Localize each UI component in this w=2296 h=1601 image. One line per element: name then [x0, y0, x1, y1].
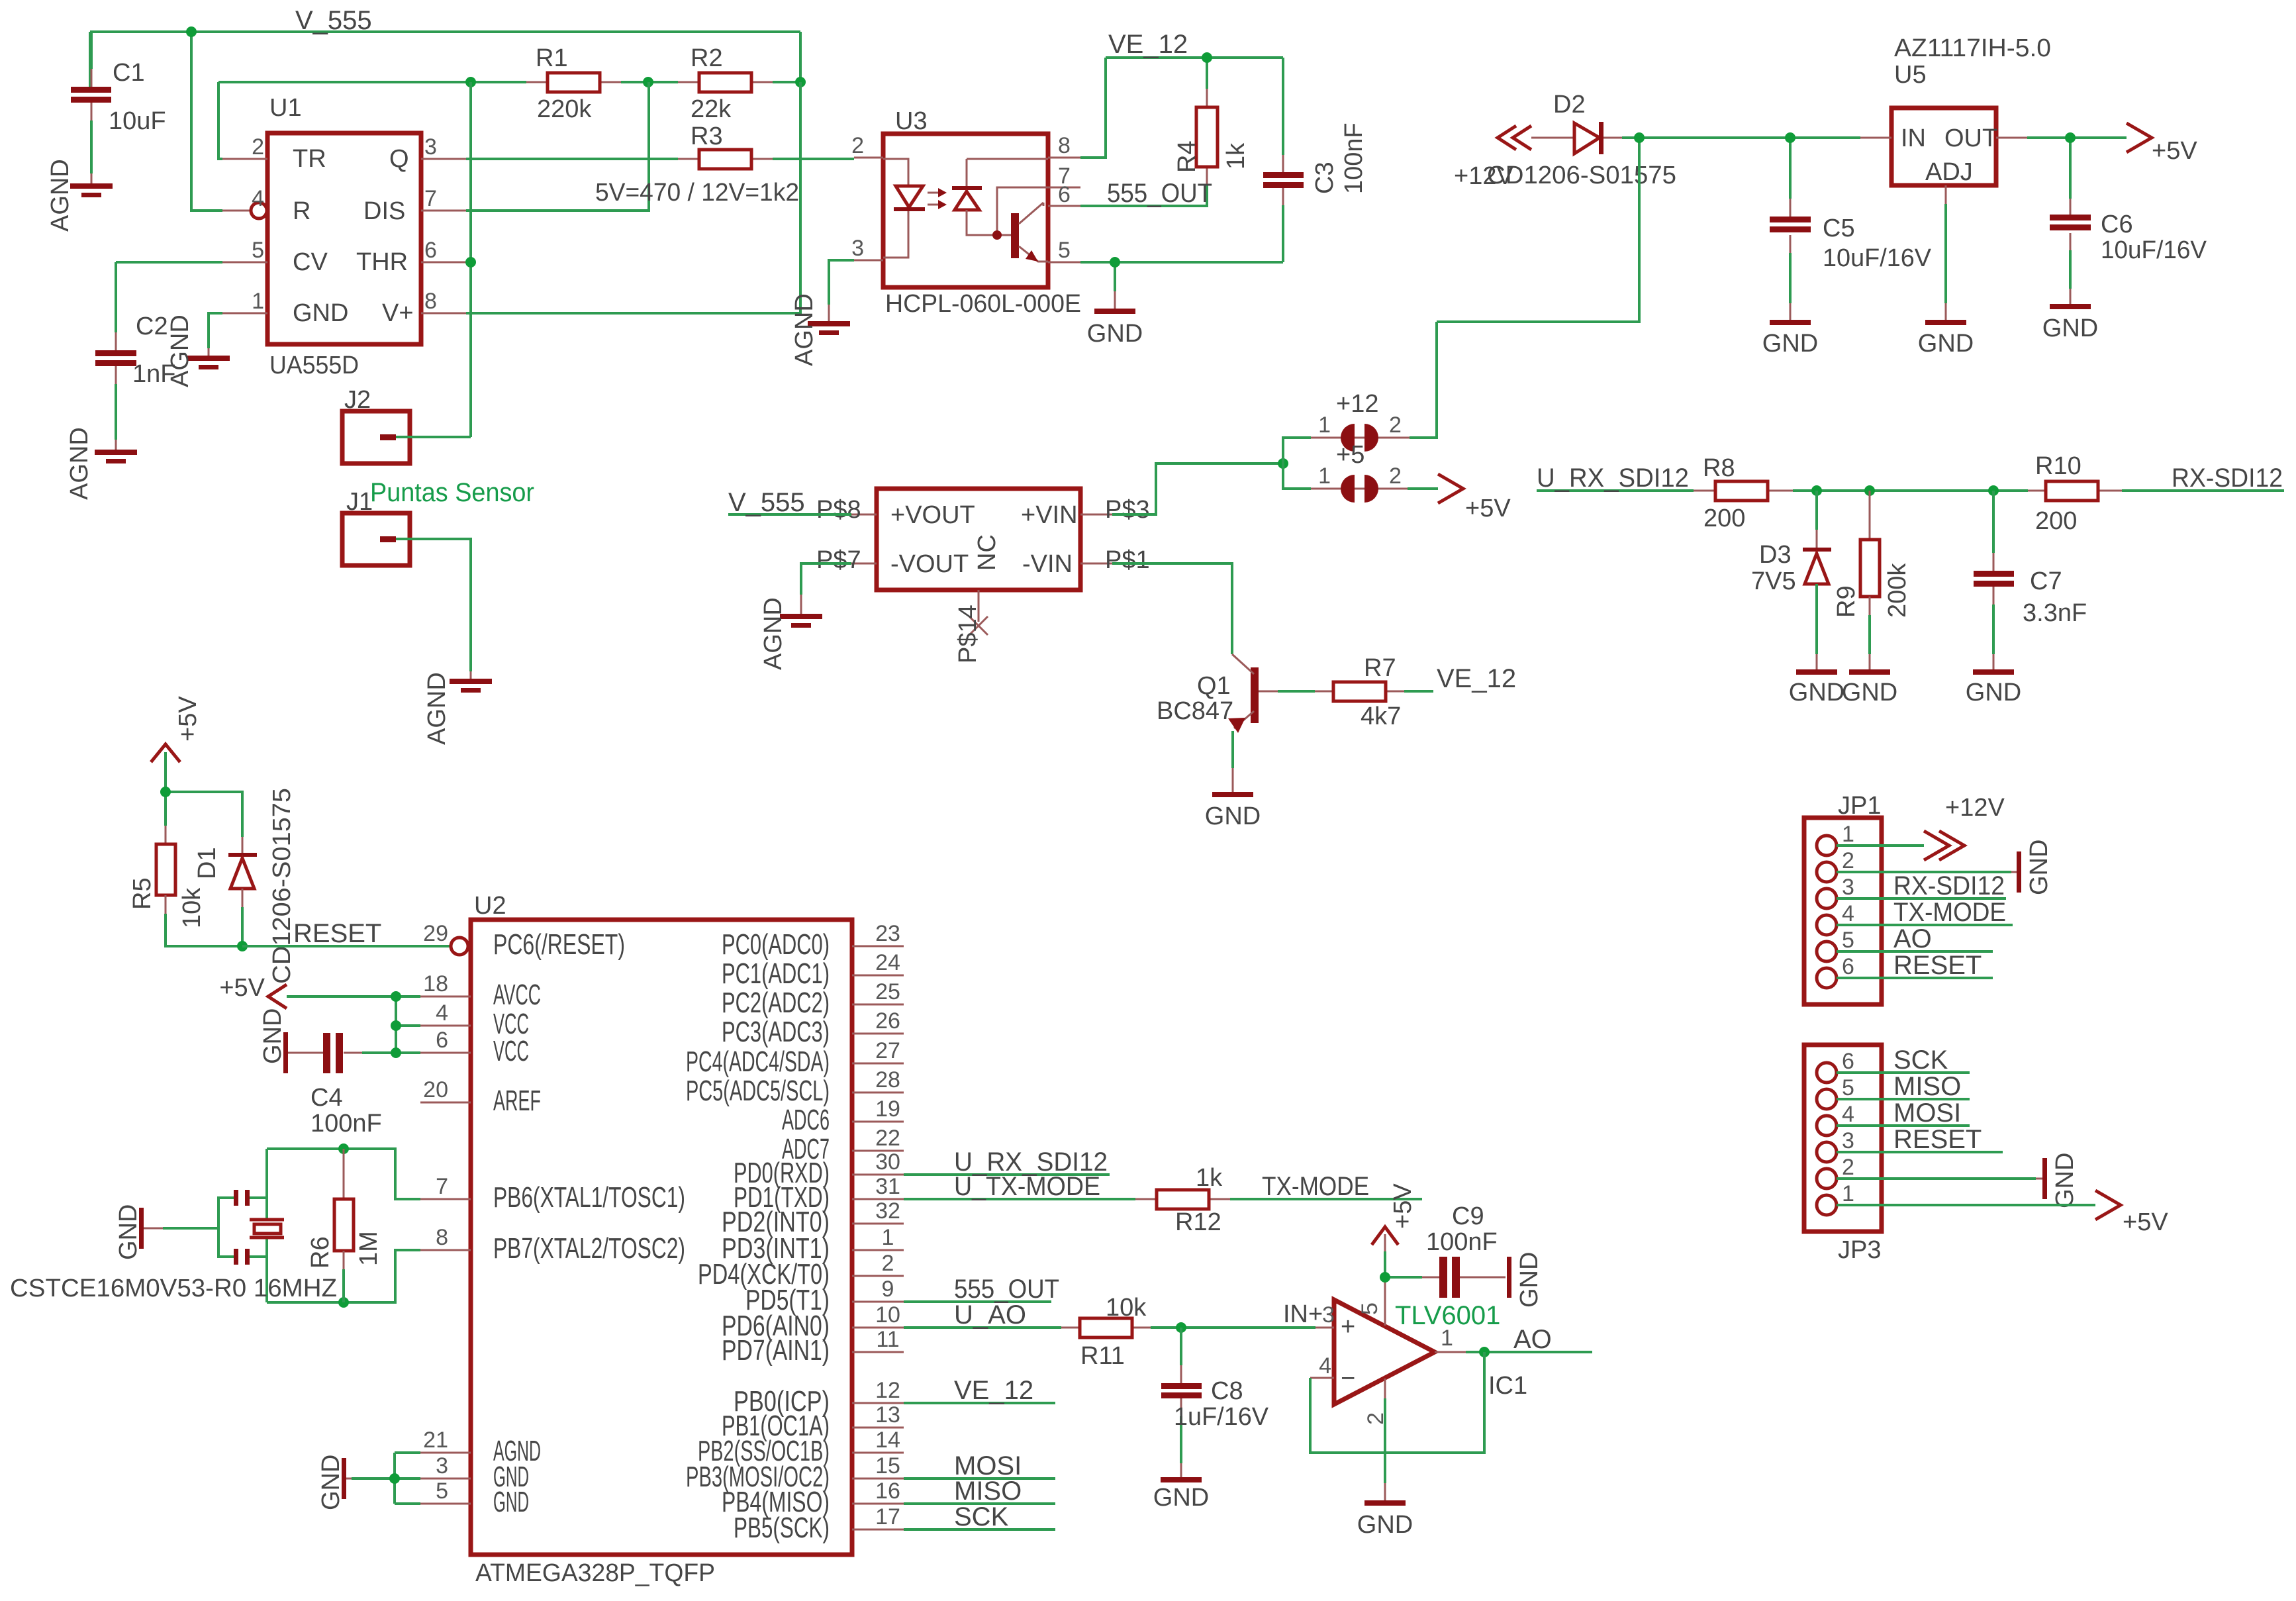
- svg-text:MOSI: MOSI: [1893, 1098, 1961, 1128]
- svg-text:1uF/16V: 1uF/16V: [1174, 1403, 1269, 1431]
- connector J2: [342, 386, 410, 463]
- U3 internal phototransistor: [992, 187, 1048, 262]
- svg-text:6: 6: [436, 1028, 448, 1053]
- ground AGND (U1 pin1): [166, 315, 230, 387]
- capacitor C3 100nF: [1263, 122, 1368, 205]
- wire net V_555 top rail: [90, 32, 800, 211]
- wire +5V to R5/D1: [166, 752, 242, 837]
- svg-text:+5: +5: [1336, 441, 1364, 469]
- svg-text:3: 3: [1842, 875, 1854, 900]
- capacitor C8 1uF/16V: [1161, 1328, 1269, 1478]
- junction R9 tap: [1864, 485, 1875, 496]
- svg-text:3: 3: [424, 134, 437, 160]
- mcu U2 ATMEGA328P_TQFP box: [471, 892, 852, 1587]
- diode D3 7V5 zener: [1751, 491, 1831, 670]
- wire opamp V- pin2 to GND: [1384, 1398, 1386, 1483]
- power +12V arrow (JP1): [1924, 794, 2005, 860]
- svg-text:10k: 10k: [1106, 1294, 1147, 1322]
- svg-text:1: 1: [882, 1225, 894, 1250]
- wire fuse branches: [1283, 438, 1437, 489]
- junction R6 top: [338, 1143, 349, 1154]
- svg-text:PC2(ADC2): PC2(ADC2): [722, 987, 830, 1019]
- svg-text:2: 2: [1842, 1155, 1854, 1180]
- svg-text:3: 3: [436, 1453, 448, 1479]
- svg-text:AVCC: AVCC: [493, 979, 541, 1011]
- svg-text:26: 26: [875, 1008, 900, 1034]
- wire JP3 pin3 RESET: [1837, 1151, 2003, 1153]
- wire -VIN to Q1 collector: [1112, 563, 1232, 654]
- wire THR vertical to J2: [469, 82, 472, 437]
- svg-text:4: 4: [252, 186, 264, 211]
- svg-text:GND: GND: [259, 1008, 287, 1064]
- svg-text:+5V: +5V: [1465, 495, 1511, 522]
- U1 pin stubs: [222, 159, 466, 313]
- svg-text:RESET: RESET: [1893, 951, 1982, 980]
- svg-text:+VIN: +VIN: [1021, 501, 1078, 529]
- wire MISO (U2 pin16): [904, 1502, 1055, 1505]
- svg-text:1: 1: [1842, 822, 1854, 847]
- svg-text:3: 3: [1842, 1128, 1854, 1153]
- svg-text:CD1206-S01575: CD1206-S01575: [1487, 162, 1676, 189]
- svg-text:P$3: P$3: [1105, 496, 1150, 524]
- wire U_TX-MODE (U2 pin31): [904, 1198, 1135, 1200]
- junction V_555 at R pin branch: [186, 26, 197, 37]
- svg-text:PD7(AIN1): PD7(AIN1): [722, 1334, 830, 1367]
- svg-text:2: 2: [252, 134, 264, 160]
- opamp pin stubs: [1310, 1279, 1466, 1398]
- svg-text:C9: C9: [1452, 1202, 1484, 1230]
- svg-text:15: 15: [875, 1453, 900, 1479]
- svg-text:CV: CV: [293, 248, 328, 276]
- svg-text:1k: 1k: [1196, 1164, 1223, 1192]
- svg-text:TX-MODE: TX-MODE: [1262, 1172, 1369, 1201]
- resistor R5 10k vertical: [128, 826, 242, 946]
- svg-text:1k: 1k: [1222, 142, 1250, 170]
- svg-text:+12V: +12V: [1945, 794, 2005, 822]
- svg-text:R7: R7: [1364, 654, 1396, 682]
- svg-text:R8: R8: [1703, 454, 1735, 482]
- wire U5 ADJ to GND: [1944, 204, 1947, 303]
- svg-text:GND: GND: [293, 299, 348, 327]
- svg-text:P$7: P$7: [816, 546, 861, 574]
- ground GND (R9): [1842, 669, 1897, 706]
- wire SCK (U2 pin17): [904, 1528, 1055, 1531]
- svg-text:PC5(ADC5/SCL): PC5(ADC5/SCL): [686, 1075, 830, 1107]
- svg-text:GND: GND: [1087, 320, 1143, 348]
- power +5V arrow (IC1): [1372, 1183, 1417, 1251]
- svg-text:+5V: +5V: [2123, 1208, 2168, 1236]
- svg-text:22: 22: [875, 1126, 900, 1151]
- U2 right pin names: [686, 928, 830, 1544]
- wire R1/R2 rail: [218, 81, 800, 83]
- junction U2 gnd: [389, 1473, 400, 1484]
- svg-text:GND: GND: [1842, 679, 1897, 706]
- svg-text:9: 9: [882, 1277, 894, 1302]
- capacitor C9 100nF: [1422, 1202, 1506, 1298]
- svg-text:U1: U1: [269, 94, 302, 122]
- svg-text:-VOUT: -VOUT: [890, 550, 969, 578]
- ground GND (IC1): [1357, 1500, 1413, 1539]
- svg-text:2: 2: [882, 1251, 894, 1276]
- svg-text:8: 8: [436, 1225, 448, 1250]
- U3 internal LED: [883, 159, 925, 258]
- wire crystal GND: [163, 1227, 218, 1230]
- svg-text:28: 28: [875, 1067, 900, 1092]
- svg-text:NC: NC: [973, 534, 1001, 571]
- svg-text:19: 19: [875, 1096, 900, 1122]
- U2 left pin stubs: [420, 996, 471, 1504]
- svg-text:7: 7: [436, 1174, 448, 1199]
- U1 pin numbers: [252, 134, 437, 314]
- svg-text:7: 7: [424, 186, 437, 211]
- svg-text:+5V: +5V: [219, 974, 265, 1002]
- resistor R2 22k: [678, 44, 773, 123]
- wire V+ pin8: [466, 82, 800, 313]
- svg-text:+12: +12: [1336, 390, 1378, 418]
- svg-text:U3: U3: [895, 107, 928, 135]
- svg-text:U2: U2: [474, 892, 506, 920]
- U2 left pin names: [493, 928, 685, 1518]
- svg-text:P$14: P$14: [954, 605, 982, 663]
- wire VE_12 rail (U3 pin8 / R4 / C3): [1080, 58, 1283, 158]
- wire JP1 pin4 TX-MODE: [1837, 924, 2013, 926]
- ground GND (JP1 pin2): [2017, 840, 2053, 895]
- junction D2 cathode: [1634, 132, 1645, 143]
- svg-text:1: 1: [1318, 463, 1331, 489]
- wire +12 rail from D2 to U5: [1410, 138, 1860, 438]
- svg-text:4: 4: [1319, 1353, 1331, 1379]
- svg-text:R6: R6: [307, 1236, 334, 1269]
- svg-text:100nF: 100nF: [1340, 122, 1368, 194]
- junction pin5 gnd: [1110, 257, 1120, 267]
- svg-text:24: 24: [875, 950, 900, 975]
- svg-text:JP1: JP1: [1838, 792, 1881, 820]
- wire AVCC/VCC rail: [287, 996, 420, 1053]
- ground GND (Q1): [1205, 792, 1261, 830]
- wire feedback loop: [1310, 1352, 1484, 1453]
- ground GND (C4): [259, 1008, 288, 1073]
- svg-text:-VIN: -VIN: [1022, 550, 1073, 578]
- capacitor C4 100nF: [287, 1033, 382, 1138]
- power +5V arrow (R5 top): [151, 696, 202, 762]
- resistor R8 200: [1694, 454, 1793, 532]
- svg-text:1M: 1M: [355, 1231, 383, 1266]
- svg-text:Q1: Q1: [1197, 672, 1231, 700]
- svg-text:GND: GND: [1789, 679, 1844, 706]
- svg-text:MISO: MISO: [1893, 1072, 1961, 1101]
- wire U3 pin5 / C3 bottom: [1080, 205, 1283, 291]
- svg-text:V_555: V_555: [728, 488, 805, 517]
- U3 pin numbers: [851, 133, 1071, 263]
- svg-text:555_OUT: 555_OUT: [954, 1275, 1059, 1304]
- dcdc pin labels: [816, 496, 1150, 574]
- U3 pin stubs: [854, 158, 1080, 262]
- svg-text:SCK: SCK: [1893, 1045, 1948, 1075]
- svg-text:AO: AO: [1893, 924, 1932, 953]
- svg-text:PB6(XTAL1/TOSC1): PB6(XTAL1/TOSC1): [493, 1181, 685, 1214]
- svg-text:+VOUT: +VOUT: [890, 501, 975, 529]
- svg-text:AGND: AGND: [46, 159, 74, 232]
- wire JP1 pin1 to +12V: [1837, 844, 1924, 847]
- wire -VOUT to AGND: [801, 563, 851, 595]
- capacitor C5 10uF/16V: [1770, 199, 1932, 320]
- svg-text:R12: R12: [1175, 1208, 1221, 1236]
- svg-text:13: 13: [875, 1402, 900, 1428]
- svg-text:1: 1: [252, 289, 264, 314]
- svg-text:R: R: [293, 197, 311, 225]
- wire U2 gnd pins: [352, 1453, 420, 1504]
- svg-text:GND: GND: [1762, 330, 1818, 358]
- junction THR: [465, 257, 476, 267]
- wire JP3 pin5 MISO: [1837, 1098, 1970, 1100]
- svg-text:3: 3: [851, 236, 864, 261]
- wire DIS pin7 to R1-R2 junction: [466, 82, 649, 211]
- svg-text:16: 16: [875, 1479, 900, 1504]
- svg-text:C8: C8: [1211, 1377, 1243, 1405]
- svg-text:D3: D3: [1759, 541, 1792, 569]
- U2 right pin numbers: [875, 921, 900, 1529]
- svg-text:RX-SDI12: RX-SDI12: [2172, 463, 2283, 493]
- svg-text:GND: GND: [1515, 1252, 1543, 1308]
- capacitor C2: [95, 262, 175, 450]
- junction C7 tap: [1988, 485, 1999, 496]
- svg-text:8: 8: [1058, 133, 1071, 158]
- svg-text:CD1206-S01575: CD1206-S01575: [268, 788, 296, 984]
- svg-text:GND: GND: [1153, 1484, 1209, 1512]
- resistor R6 1M vertical: [307, 1149, 383, 1302]
- power +12V arrow (D2 anode): [1454, 126, 1531, 190]
- svg-text:U_RX_SDI12: U_RX_SDI12: [1537, 463, 1689, 493]
- svg-text:R2: R2: [691, 44, 723, 72]
- resistor R4 1k vertical: [1173, 89, 1250, 185]
- svg-text:31: 31: [875, 1174, 900, 1199]
- resistor R11 10k: [1061, 1294, 1151, 1370]
- svg-text:21: 21: [423, 1428, 448, 1453]
- svg-text:GND: GND: [2042, 315, 2098, 342]
- wire VE_12 (U2 pin12): [904, 1402, 1055, 1404]
- svg-text:PC4(ADC4/SDA): PC4(ADC4/SDA): [686, 1045, 830, 1078]
- svg-text:C3: C3: [1311, 162, 1339, 194]
- power +5V arrow (JP3): [2095, 1190, 2168, 1236]
- U1 pin 4 inversion circle: [251, 203, 267, 218]
- junction C8 tap: [1176, 1322, 1186, 1333]
- junction R2 right / V_555 / V+: [795, 77, 806, 87]
- svg-text:TR: TR: [293, 145, 326, 173]
- wire 555_OUT (U2 pin9): [904, 1300, 1051, 1303]
- wire +5 fuse to arrow: [1408, 487, 1438, 490]
- junction AVCC: [391, 991, 401, 1002]
- svg-text:R10: R10: [2035, 452, 2081, 480]
- fuse F1 +12: [1311, 390, 1410, 452]
- svg-text:ADC6: ADC6: [782, 1104, 830, 1136]
- U2 pin 29 inversion circle: [451, 938, 468, 955]
- svg-text:GND: GND: [1918, 330, 1974, 358]
- svg-text:22k: 22k: [691, 95, 732, 123]
- svg-text:C5: C5: [1823, 215, 1855, 242]
- junction VCC6: [391, 1047, 401, 1058]
- svg-text:R3: R3: [691, 122, 723, 150]
- svg-text:+: +: [1341, 1313, 1355, 1341]
- svg-text:UA555D: UA555D: [269, 352, 359, 379]
- junction D3 tap: [1811, 485, 1822, 496]
- power +5V arrow (fuse): [1438, 474, 1511, 522]
- op-amp IC1 TLV6001: [1334, 1300, 1527, 1404]
- svg-text:12: 12: [875, 1378, 900, 1403]
- svg-text:J2: J2: [344, 386, 371, 414]
- junction opamp V+: [1380, 1272, 1390, 1283]
- svg-text:IN+: IN+: [1283, 1300, 1323, 1328]
- svg-text:100nF: 100nF: [1426, 1228, 1498, 1256]
- svg-text:10uF: 10uF: [109, 107, 166, 135]
- svg-text:TX-MODE: TX-MODE: [1893, 898, 2006, 927]
- wire 555_OUT (U3 pin6 to R4 bottom): [1080, 185, 1207, 206]
- svg-text:U_TX-MODE: U_TX-MODE: [954, 1172, 1100, 1201]
- ground GND (C5): [1762, 320, 1818, 358]
- svg-text:220k: 220k: [537, 95, 592, 123]
- svg-text:32: 32: [875, 1198, 900, 1224]
- svg-text:PB5(SCK): PB5(SCK): [734, 1512, 830, 1544]
- wire U_RX_SDI12 top-right net: [1537, 489, 2284, 492]
- wire JP1 pin5 AO: [1837, 950, 1993, 953]
- svg-text:RX-SDI12: RX-SDI12: [1893, 871, 2005, 900]
- svg-text:7V5: 7V5: [1751, 567, 1796, 595]
- svg-text:25: 25: [875, 979, 900, 1004]
- svg-text:27: 27: [875, 1038, 900, 1063]
- svg-text:4: 4: [1842, 1102, 1854, 1127]
- svg-text:1: 1: [1318, 412, 1331, 438]
- diode D2 CD1206-S01575: [1487, 91, 1676, 189]
- capacitor C7 3.3nF: [1974, 491, 2087, 670]
- wire Q1 base to R7: [1278, 690, 1315, 693]
- wire Q pin3 to U3 pin2: [466, 158, 854, 160]
- svg-text:HCPL-060L-000E: HCPL-060L-000E: [885, 290, 1081, 318]
- svg-text:2: 2: [1842, 848, 1854, 873]
- svg-text:4: 4: [1842, 901, 1854, 926]
- svg-text:−: −: [1341, 1365, 1355, 1392]
- wire R7 to VE_12: [1404, 690, 1433, 693]
- junction C5 tap: [1785, 132, 1795, 143]
- header JP1: [1804, 792, 1882, 1004]
- svg-text:AGND: AGND: [166, 315, 194, 387]
- svg-text:23: 23: [875, 921, 900, 946]
- svg-text:R9: R9: [1833, 585, 1860, 618]
- svg-text:V_555: V_555: [295, 6, 372, 35]
- svg-text:THR: THR: [356, 248, 408, 276]
- svg-text:U_AO: U_AO: [954, 1300, 1026, 1330]
- ground AGND (C2): [66, 427, 137, 500]
- wire JP3 pin6 SCK: [1837, 1071, 1970, 1074]
- ground GND (C8): [1153, 1477, 1209, 1512]
- junction RESET: [237, 941, 248, 951]
- resistor R9 200k vertical: [1833, 491, 1911, 670]
- wire +VIN to fuse node: [1112, 463, 1283, 514]
- ground GND (JP3 pin2): [2042, 1153, 2079, 1208]
- svg-text:R5: R5: [128, 877, 156, 910]
- ground GND (D3): [1789, 669, 1844, 706]
- wire U3 pin3 to AGND: [829, 260, 854, 305]
- svg-text:PB7(XTAL2/TOSC2): PB7(XTAL2/TOSC2): [493, 1232, 685, 1265]
- dcdc pin stubs: [851, 514, 1112, 622]
- svg-text:VE_12: VE_12: [1437, 664, 1516, 693]
- svg-text:IN: IN: [1901, 124, 1926, 152]
- U3 internal photodiode: [952, 159, 1048, 235]
- svg-text:C2: C2: [136, 313, 168, 340]
- wire JP3 pin4 MOSI: [1837, 1124, 1970, 1127]
- svg-text:PC1(ADC1): PC1(ADC1): [722, 957, 830, 990]
- svg-text:1: 1: [1842, 1181, 1854, 1206]
- svg-text:D2: D2: [1553, 91, 1586, 119]
- svg-text:R4: R4: [1173, 140, 1201, 173]
- svg-text:VE_12: VE_12: [1108, 30, 1188, 59]
- svg-text:GND: GND: [2051, 1153, 2079, 1208]
- connector J1: [342, 488, 410, 565]
- svg-text:4: 4: [436, 1000, 448, 1026]
- svg-text:1: 1: [1441, 1326, 1453, 1351]
- ground GND (C7): [1966, 669, 2021, 706]
- svg-text:3.3nF: 3.3nF: [2023, 599, 2087, 627]
- wire U_RX_SDI12 (U2 pin30): [904, 1173, 1110, 1176]
- U3 emission arrows: [928, 188, 947, 209]
- wire GND pin1: [209, 313, 222, 348]
- svg-text:PC3(ADC3): PC3(ADC3): [722, 1016, 830, 1048]
- svg-text:6: 6: [1842, 954, 1854, 979]
- svg-text:VE_12: VE_12: [954, 1376, 1033, 1405]
- U2 right pin stubs: [852, 946, 904, 1529]
- svg-text:10uF/16V: 10uF/16V: [1823, 244, 1932, 272]
- ground AGND (P$7): [759, 597, 822, 670]
- power +5V arrow (U5 out): [2127, 123, 2197, 165]
- svg-text:C4: C4: [311, 1084, 343, 1112]
- svg-text:10: 10: [875, 1302, 900, 1328]
- junction R1-R2 mid: [643, 77, 653, 87]
- svg-text:GND: GND: [493, 1486, 529, 1518]
- svg-text:IC1: IC1: [1488, 1372, 1527, 1400]
- svg-text:20: 20: [423, 1077, 448, 1102]
- capacitor C1: [71, 32, 166, 184]
- svg-text:4k7: 4k7: [1361, 703, 1401, 730]
- svg-text:D1: D1: [193, 847, 221, 879]
- svg-text:AGND: AGND: [759, 597, 787, 670]
- svg-text:C7: C7: [2030, 567, 2062, 595]
- wire JP3 pin2 GND: [1837, 1177, 2036, 1180]
- wire JP1 pin2 to GND: [1837, 871, 2011, 873]
- wire R11 to opamp IN+: [1151, 1326, 1315, 1329]
- svg-text:29: 29: [423, 921, 448, 946]
- wire J2 pin to THR column: [396, 436, 471, 438]
- svg-text:AREF: AREF: [493, 1085, 541, 1117]
- junction VCC4: [391, 1020, 401, 1031]
- svg-text:VCC: VCC: [493, 1035, 529, 1067]
- ground GND (C6): [2042, 304, 2098, 342]
- ground GND (U2): [317, 1455, 346, 1510]
- svg-text:6: 6: [424, 238, 437, 263]
- resistor R12 1k: [1135, 1164, 1230, 1236]
- ground AGND (J1): [423, 672, 492, 745]
- wire TR net (pin2 up to R1 rail): [218, 82, 222, 159]
- junction R5/D1 top: [160, 787, 171, 797]
- svg-text:AGND: AGND: [790, 293, 818, 366]
- svg-text:5: 5: [1357, 1302, 1382, 1315]
- svg-text:AZ1117IH-5.0: AZ1117IH-5.0: [1894, 34, 2051, 62]
- wire J1 pin to AGND: [396, 539, 471, 671]
- svg-text:5: 5: [252, 238, 264, 263]
- svg-text:Puntas Sensor: Puntas Sensor: [370, 478, 534, 507]
- svg-text:555_OUT: 555_OUT: [1107, 179, 1212, 208]
- svg-text:OUT: OUT: [1944, 124, 1997, 152]
- svg-text:5: 5: [436, 1479, 448, 1504]
- svg-text:R1: R1: [536, 44, 568, 72]
- resistor R7 4k7: [1315, 654, 1404, 730]
